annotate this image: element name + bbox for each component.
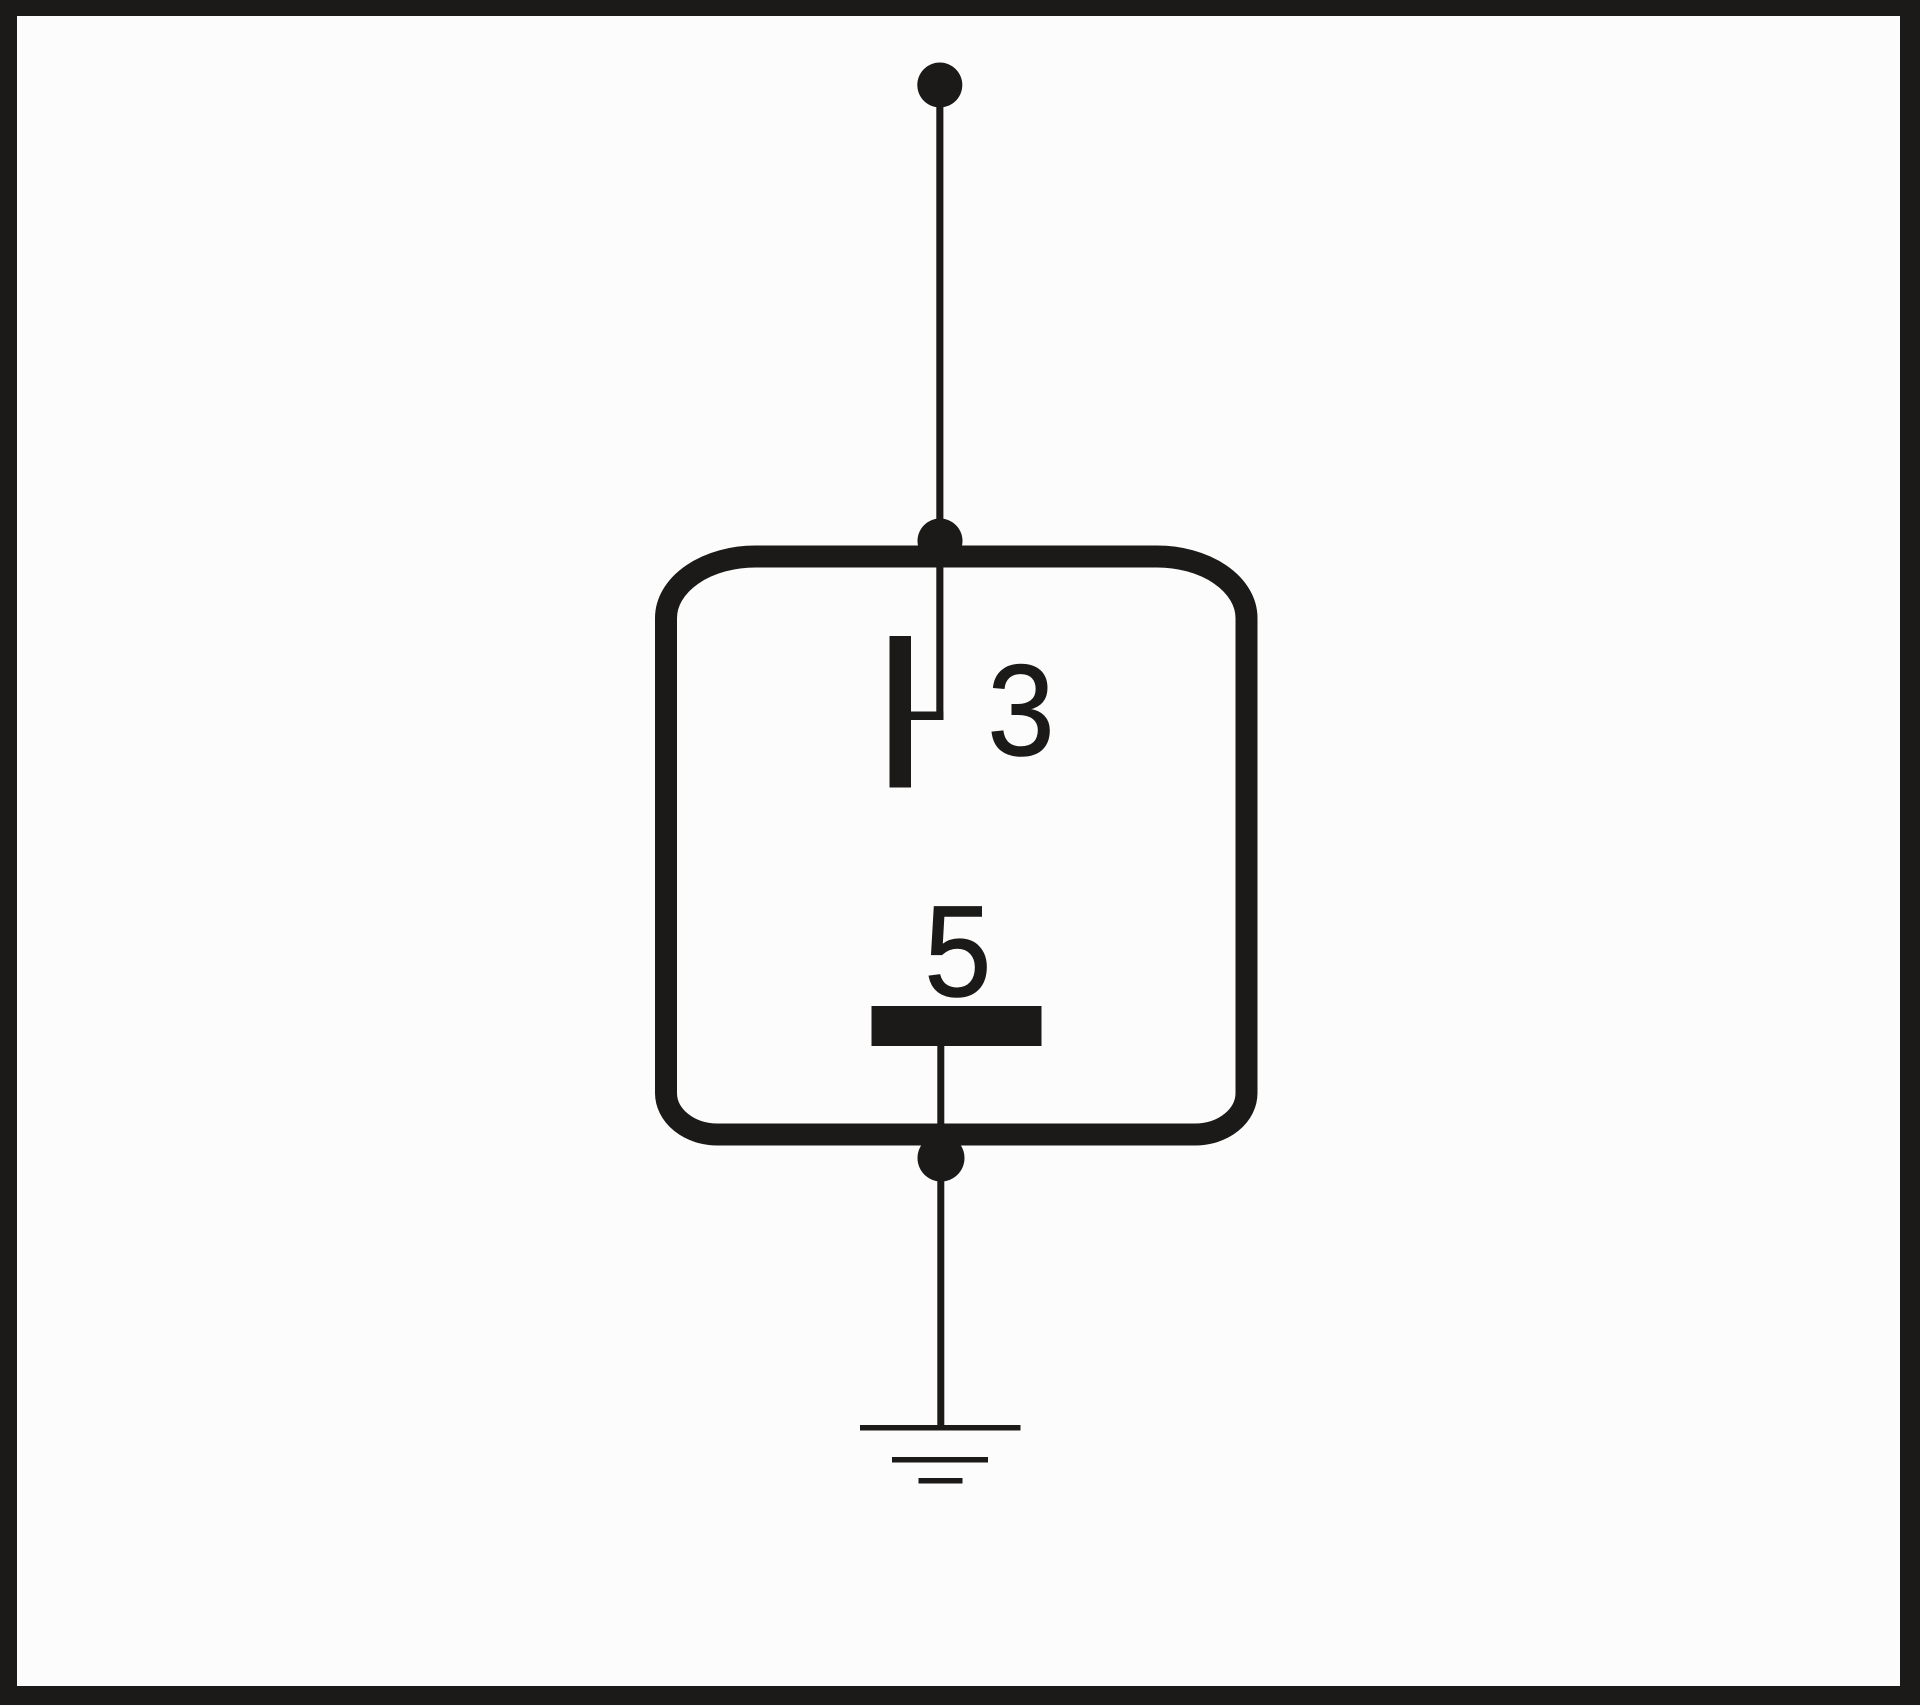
border frame left	[0, 0, 17, 1705]
border frame right	[1900, 0, 1920, 1705]
ground bar 2	[892, 1457, 988, 1463]
node C junction below housing	[918, 1135, 965, 1182]
node A terminal dot top	[917, 63, 962, 108]
svg-text:3: 3	[987, 637, 1054, 783]
electrode tick wire	[908, 712, 944, 721]
svg-text:5: 5	[924, 878, 991, 1024]
relay housing outline U2	[666, 557, 1247, 1135]
border frame top	[0, 0, 1920, 16]
electrode plate terminal 3	[890, 636, 912, 788]
ground bar 1	[860, 1425, 1021, 1431]
border frame bottom	[0, 1686, 1920, 1705]
ground bar 3	[919, 1478, 963, 1484]
node B junction on relay housing top	[918, 519, 963, 564]
electrode plate terminal 5	[872, 1006, 1042, 1046]
wire from node 3 to electrode tick	[936, 85, 943, 716]
wire from plate 5 to ground	[937, 1046, 944, 1427]
